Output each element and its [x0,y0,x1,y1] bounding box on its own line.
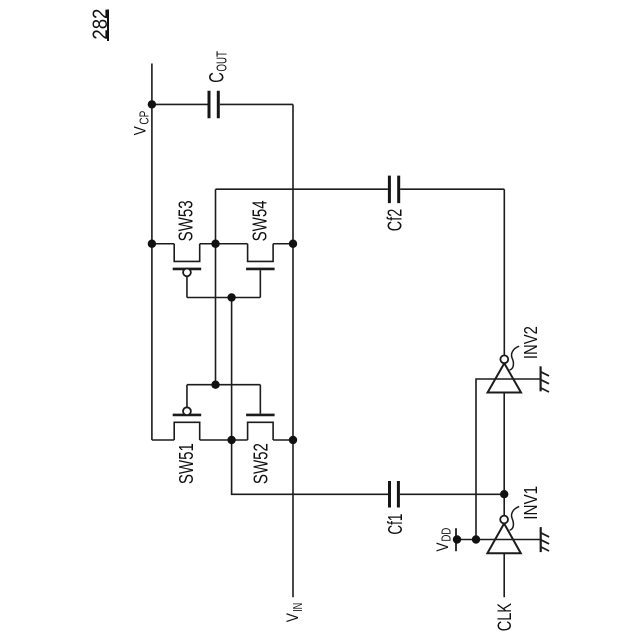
svg-text:Cf2: Cf2 [383,209,406,232]
svg-text:V: V [131,126,150,136]
svg-text:INV1: INV1 [521,486,541,520]
svg-text:INV2: INV2 [521,326,541,359]
svg-text:SW54: SW54 [248,200,271,241]
svg-text:SW53: SW53 [174,200,197,241]
svg-text:V: V [283,613,302,623]
svg-text:OUT: OUT [215,51,231,72]
svg-text:SW51: SW51 [175,443,198,484]
svg-text:CLK: CLK [495,603,516,632]
svg-text:C: C [206,72,229,83]
svg-text:V: V [433,542,452,552]
svg-text:CP: CP [136,111,151,125]
svg-text:DD: DD [439,528,454,542]
svg-text:SW52: SW52 [249,443,272,484]
svg-text:Cf1: Cf1 [384,514,407,535]
svg-text:IN: IN [290,603,305,612]
